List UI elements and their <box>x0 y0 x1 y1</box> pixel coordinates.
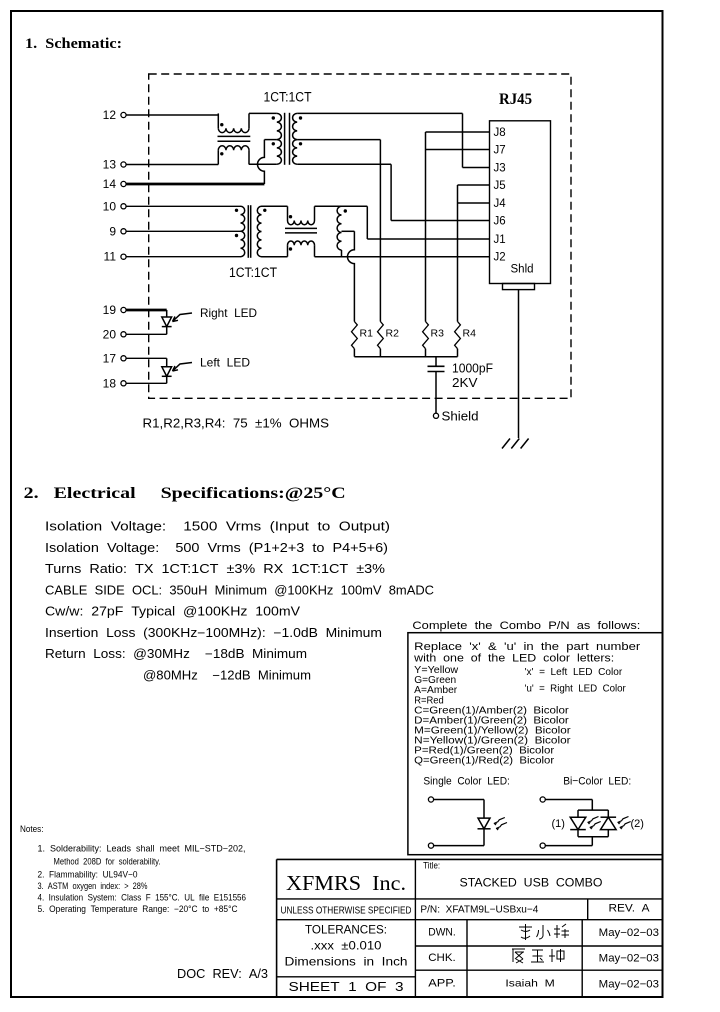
svg-text:TOLERANCES:: TOLERANCES: <box>305 923 387 937</box>
svg-text:DWN.: DWN. <box>428 927 456 939</box>
svg-text:Title:: Title: <box>423 861 440 872</box>
svg-text:4. Insulation System: Class: 4. Insulation System: Class F 155°C. UL … <box>38 892 247 902</box>
svg-text:18: 18 <box>103 376 117 390</box>
svg-text:J2: J2 <box>494 252 506 264</box>
svg-text:1CT:1CT: 1CT:1CT <box>229 265 277 280</box>
svg-text:Notes:: Notes: <box>20 824 44 834</box>
svg-text:Right LED: Right LED <box>200 306 257 320</box>
svg-text:10: 10 <box>103 199 117 213</box>
svg-text:Isolation Voltage: 500 Vr: Isolation Voltage: 500 Vrms (P1+2+3 to P… <box>45 541 388 555</box>
svg-text:May−02−03: May−02−03 <box>599 953 659 965</box>
svg-text:9: 9 <box>109 224 116 238</box>
svg-text:2. Flammability: UL94V−0: 2. Flammability: UL94V−0 <box>38 869 138 879</box>
svg-text:Single Color LED:: Single Color LED: <box>423 775 510 787</box>
svg-text:Method 208D for solderabili: Method 208D for solderability. <box>54 857 161 867</box>
svg-text:2. Electrical Specificat: 2. Electrical Specifications:@25°C <box>24 485 346 502</box>
svg-text:J6: J6 <box>494 216 506 228</box>
svg-text:with one of the LED color: with one of the LED color letters: <box>413 652 614 664</box>
svg-text:Bi−Color LED:: Bi−Color LED: <box>563 775 631 787</box>
svg-text:14: 14 <box>103 177 117 191</box>
svg-text:J3: J3 <box>494 163 506 175</box>
svg-text:Complete the Combo P/N as: Complete the Combo P/N as follows: <box>412 620 640 632</box>
svg-text:11: 11 <box>104 250 117 264</box>
svg-text:J8: J8 <box>494 127 506 139</box>
svg-text:.xxx ±0.010: .xxx ±0.010 <box>311 939 382 953</box>
svg-text:1000pF: 1000pF <box>452 362 493 376</box>
svg-text:13: 13 <box>103 158 117 172</box>
svg-text:APP.: APP. <box>428 978 456 990</box>
svg-text:J4: J4 <box>494 198 507 210</box>
svg-text:1. Solderability: Leads sha: 1. Solderability: Leads shall meet MIL−S… <box>38 844 246 854</box>
svg-text:Return Loss: @30MHz −18dB: Return Loss: @30MHz −18dB Minimum <box>45 647 307 661</box>
svg-text:Insertion Loss (300KHz−100MH: Insertion Loss (300KHz−100MHz): −1.0dB M… <box>45 626 382 640</box>
svg-text:'u' = Right LED Color: 'u' = Right LED Color <box>525 684 627 695</box>
svg-text:UNLESS OTHERWISE SPECIFIED: UNLESS OTHERWISE SPECIFIED <box>281 906 412 917</box>
svg-text:17: 17 <box>103 351 117 365</box>
svg-text:R1: R1 <box>360 328 374 340</box>
svg-text:R4: R4 <box>463 328 477 340</box>
svg-text:'x' = Left LED Color: 'x' = Left LED Color <box>525 667 623 678</box>
svg-text:5. Operating Temperature Ra: 5. Operating Temperature Range: −20°C to… <box>38 904 238 914</box>
svg-text:May−02−03: May−02−03 <box>599 979 659 991</box>
svg-text:Isaiah M: Isaiah M <box>505 978 554 990</box>
svg-text:19: 19 <box>103 303 117 317</box>
svg-text:P/N: XFATM9L−USBxu−4: P/N: XFATM9L−USBxu−4 <box>420 905 538 916</box>
svg-text:12: 12 <box>103 108 117 122</box>
svg-text:J5: J5 <box>494 180 506 192</box>
svg-text:Shld: Shld <box>511 264 534 276</box>
svg-text:CHK.: CHK. <box>428 952 456 964</box>
svg-text:SHEET 1 OF 3: SHEET 1 OF 3 <box>289 980 404 994</box>
svg-text:RJ45: RJ45 <box>499 91 532 108</box>
svg-text:R2: R2 <box>386 328 400 340</box>
svg-text:Dimensions in Inch: Dimensions in Inch <box>285 955 408 969</box>
svg-text:Isolation Voltage: 1500 V: Isolation Voltage: 1500 Vrms (Input to O… <box>45 520 390 534</box>
svg-text:DOC REV: A/3: DOC REV: A/3 <box>177 967 268 981</box>
svg-text:R3: R3 <box>431 328 445 340</box>
svg-text:Shield: Shield <box>442 410 479 424</box>
svg-text:1. Schematic:: 1. Schematic: <box>25 36 122 52</box>
svg-text:R1,R2,R3,R4: 75 ±1% OHMS: R1,R2,R3,R4: 75 ±1% OHMS <box>143 417 330 431</box>
svg-text:CABLE SIDE OCL: 350uH Mini: CABLE SIDE OCL: 350uH Minimum @100KHz 10… <box>45 583 434 597</box>
svg-text:Turns Ratio: TX 1CT:1CT ±3: Turns Ratio: TX 1CT:1CT ±3% RX 1CT:1CT ±… <box>45 562 385 576</box>
svg-text:Replace 'x' & 'u' in the: Replace 'x' & 'u' in the part number <box>414 641 641 653</box>
svg-text:(2): (2) <box>631 818 644 830</box>
svg-text:J7: J7 <box>494 145 506 157</box>
svg-text:STACKED USB COMBO: STACKED USB COMBO <box>460 876 603 890</box>
svg-text:J1: J1 <box>494 234 506 246</box>
svg-text:20: 20 <box>103 327 117 341</box>
svg-text:REV. A: REV. A <box>609 903 651 915</box>
svg-text:@80MHz −12dB Minimum: @80MHz −12dB Minimum <box>143 668 311 682</box>
svg-text:2KV: 2KV <box>452 376 478 390</box>
svg-text:XFMRS Inc.: XFMRS Inc. <box>286 871 406 895</box>
svg-text:Left LED: Left LED <box>200 356 250 370</box>
svg-text:3. ASTM oxygen index: > 2: 3. ASTM oxygen index: > 28% <box>38 881 148 891</box>
svg-text:Q=Green(1)/Red(2) Bicolor: Q=Green(1)/Red(2) Bicolor <box>414 756 555 767</box>
svg-text:May−02−03: May−02−03 <box>599 927 659 939</box>
svg-text:(1): (1) <box>552 818 565 830</box>
svg-text:Cw/w: 27pF Typical @100KHz: Cw/w: 27pF Typical @100KHz 100mV <box>45 605 301 619</box>
svg-text:1CT:1CT: 1CT:1CT <box>264 90 312 105</box>
